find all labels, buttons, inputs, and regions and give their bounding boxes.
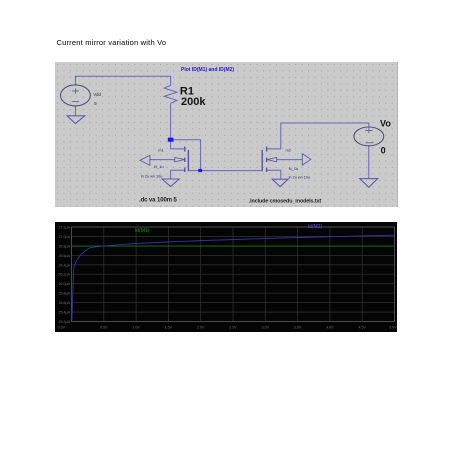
svg-text:4.5V: 4.5V [358,326,366,330]
svg-text:ln 2u wn 10u: ln 2u wn 10u [141,175,163,179]
svg-text:1.5V: 1.5V [165,326,173,330]
svg-text:2.5V: 2.5V [229,326,237,330]
svg-text:.include cmosedu_models.txt: .include cmosedu_models.txt [249,198,322,204]
svg-text:m2: m2 [286,147,292,152]
svg-text:27.2µA: 27.2µA [59,226,71,230]
svg-text:1.0V: 1.0V [132,326,140,330]
svg-text:25.8µA: 25.8µA [59,292,71,296]
svg-text:N_1u: N_1u [154,164,164,169]
svg-text:2.0V: 2.0V [197,326,205,330]
svg-text:26.4µA: 26.4µA [59,263,71,267]
svg-text:26.0µA: 26.0µA [59,282,71,286]
svg-text:Id(M1): Id(M1) [135,228,150,234]
svg-text:26.8µA: 26.8µA [59,244,71,248]
svg-text:0.0V: 0.0V [58,326,66,330]
svg-text:Plot ID(M1) and ID(M2): Plot ID(M1) and ID(M2) [181,67,234,73]
svg-text:5.0V: 5.0V [389,326,397,330]
svg-text:N_1u: N_1u [289,166,299,171]
svg-text:Id(M2): Id(M2) [308,224,323,230]
svg-text:25.4µA: 25.4µA [59,311,71,315]
svg-text:25.2µA: 25.2µA [59,320,71,324]
svg-text:0.5V: 0.5V [100,326,108,330]
svg-text:3.0V: 3.0V [262,326,270,330]
svg-text:.dc va 100m 5: .dc va 100m 5 [139,198,177,204]
svg-text:ln 2u wn 10u: ln 2u wn 10u [289,176,311,180]
svg-text:26.6µA: 26.6µA [59,254,71,258]
svg-text:Vo: Vo [380,119,391,129]
svg-text:4.0V: 4.0V [326,326,334,330]
svg-text:27.0µA: 27.0µA [59,235,71,239]
svg-text:3.5V: 3.5V [294,326,302,330]
svg-text:5: 5 [94,101,97,106]
svg-text:m1: m1 [158,147,164,152]
svg-text:26.2µA: 26.2µA [59,273,71,277]
svg-text:200k: 200k [181,96,206,108]
svg-text:25.6µA: 25.6µA [59,301,71,305]
svg-text:0: 0 [381,145,386,155]
svg-text:Vdd: Vdd [93,92,101,97]
